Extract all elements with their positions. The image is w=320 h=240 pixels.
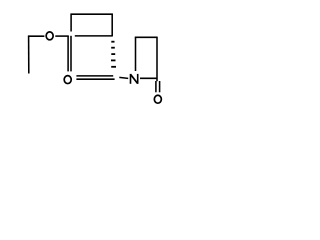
node N lactam nitrogen xyxy=(131,74,138,84)
wire lactam N-C(=O) bond xyxy=(140,77,157,79)
wire cyclobutane left edge xyxy=(70,14,72,32)
wire CH2-O bond xyxy=(28,35,45,37)
node O ester ether oxygen xyxy=(46,32,53,40)
wire amide C-N bond xyxy=(119,77,128,78)
wire O-C(ester) bond xyxy=(55,35,69,37)
wire lactam C=O double bond line 2 xyxy=(159,81,161,92)
wire amide C=O double bond lower line xyxy=(76,78,114,80)
wire ester C=O double bond line 2 xyxy=(70,36,72,72)
wire lactam ring left edge (N-CH2) xyxy=(135,37,137,71)
wire ethyl CH3-CH2 bond xyxy=(28,36,30,73)
wire cyclobutane right edge xyxy=(111,14,113,37)
wire cyclobutane top edge xyxy=(71,13,113,15)
node O lactam carbonyl oxygen xyxy=(154,95,161,103)
hashed wedge bond (stereo) from cyclobutane C to amide carbonyl C xyxy=(111,41,116,68)
wire lactam ring right edge xyxy=(156,37,158,82)
wire ester C=O double bond line 1 xyxy=(67,36,69,72)
wire cyclobutane bottom edge xyxy=(75,35,113,37)
wire amide C=O double bond upper line xyxy=(76,75,113,77)
node O ester carbonyl oxygen xyxy=(64,76,71,84)
wire lactam C=O double bond line 1 xyxy=(155,81,157,92)
wire lactam ring top edge xyxy=(135,36,157,38)
